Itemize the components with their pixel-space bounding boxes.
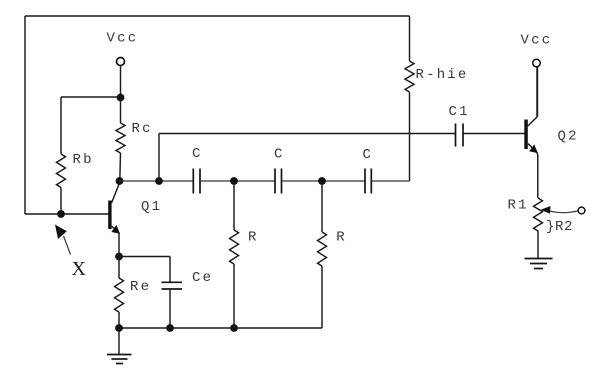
resistor R-hie [405,16,414,181]
node X junction dot [57,210,65,218]
svg-text:Q2: Q2 [558,129,579,145]
wire: top wire to C1 and Q2 base [159,133,455,135]
resistor Rb [57,97,66,214]
transistor Q1 [108,183,120,257]
wire: feedback left rail [24,16,26,214]
Q1 collector node dot [116,177,124,185]
label Re [130,279,151,295]
svg-text:C: C [274,147,285,163]
wire: feedback top rail [25,15,410,17]
arrow pointing to node X [55,225,71,255]
svg-text:R: R [248,229,259,245]
potentiometer R1/R2 [534,198,543,258]
wire: C1 to Q2 base [463,133,525,135]
resistor R (first) [230,181,239,328]
junction dot: first R node [230,177,238,185]
transistor Q2 [524,67,538,198]
label R2 with brace [546,219,573,235]
label Q1 [141,199,162,215]
wire: Rb top to Vcc junction [61,96,121,98]
wire: ladder segment 2 [200,180,275,182]
svg-text:Vcc: Vcc [521,33,553,49]
label Q2 [558,129,579,145]
junction dot R/ground [230,324,238,332]
svg-text:R-hie: R-hie [416,67,469,83]
label R (second) [336,229,347,245]
svg-text:C: C [363,147,374,163]
svg-text:Vcc: Vcc [107,31,139,47]
wire: ladder segment to R-hie bottom [371,180,409,182]
label Vcc (right) [521,33,553,49]
capacitor C (third) [365,169,371,194]
capacitor C (second) [275,169,282,194]
ground symbol (right) [525,259,553,269]
resistor Rc [116,98,125,182]
label C (first) [192,146,203,162]
label C (second) [274,147,285,163]
label R-hie [416,67,469,83]
svg-text:C1: C1 [449,104,470,120]
Vcc supply terminal (left) [117,58,125,98]
label R (first) [248,229,259,245]
svg-text:}R2: }R2 [546,219,573,235]
junction dot Ce/ground [166,324,174,332]
wire: ladder segment 3 [282,180,366,182]
capacitor C (first) [193,169,200,194]
wiper arrow and output terminal [541,206,585,214]
wire: tap up from ladder [158,134,160,182]
label Ce [192,270,213,286]
junction dot below Vcc [117,94,125,102]
label Vcc (left) [107,31,139,47]
svg-text:R: R [336,229,347,245]
junction dot Re/ground [115,324,123,332]
svg-text:Re: Re [130,279,151,295]
capacitor Ce [119,257,182,329]
svg-text:Ce: Ce [192,270,213,286]
wire: bottom ground rail [119,327,322,329]
resistor R (second) [318,181,327,328]
wire: Q1 base wire [25,213,109,215]
junction dot: tap to top wire [155,177,163,185]
svg-text:Q1: Q1 [141,199,162,215]
label Rb [73,152,94,168]
label X [72,258,87,280]
label C1 [449,104,470,120]
label C (third) [363,147,374,163]
svg-text:Rb: Rb [73,152,94,168]
Vcc supply terminal (right) [533,59,541,116]
Q1 emitter node dot [115,253,123,261]
svg-text:X: X [72,258,87,280]
svg-text:R1: R1 [508,198,529,214]
label Rc [132,121,153,137]
resistor Re [115,257,124,329]
label R1 [508,198,529,214]
svg-text:C: C [192,146,203,162]
junction dot: second R node [318,177,326,185]
wire: ladder segment collector to C [120,180,194,182]
svg-text:Rc: Rc [132,121,153,137]
capacitor C1 [456,124,464,147]
ground symbol (left) [107,328,132,364]
